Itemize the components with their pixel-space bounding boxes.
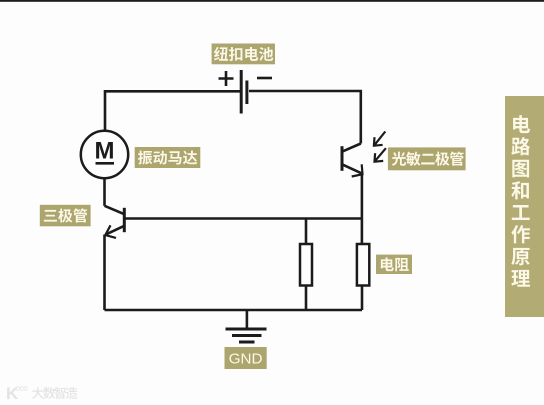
wire motor to Q1 collector <box>103 178 106 206</box>
svg-text:GND: GND <box>229 351 263 368</box>
resistor R2 body <box>357 244 369 286</box>
resistor R1 lead top <box>305 219 308 245</box>
label: button battery 纽扣电池 <box>212 44 275 65</box>
phototransistor base bar <box>341 146 344 171</box>
battery B1 negative plate <box>245 81 248 105</box>
resistor R2 lead bottom <box>361 286 364 311</box>
phototransistor emitter wire down <box>361 174 364 245</box>
transistor Q1 collector diagonal <box>105 206 125 214</box>
light arrow 1 <box>374 132 385 146</box>
label: GND <box>225 347 267 369</box>
label: transistor 三极管 <box>40 205 91 227</box>
label: photodiode 光敏二极管 <box>388 147 466 170</box>
battery plus sign <box>219 71 234 86</box>
wire top-left (battery + to motor) <box>105 91 240 131</box>
battery B1 (button cell) positive plate <box>240 70 243 114</box>
transistor Q1 emitter with arrow <box>106 226 124 235</box>
ground bar 2 <box>232 334 262 337</box>
resistor R1 body <box>300 244 312 286</box>
transistor Q1 base bar <box>123 208 126 232</box>
top border line <box>0 0 544 2</box>
transistor Q1 emitter wire down <box>103 235 106 311</box>
battery minus sign <box>257 77 272 80</box>
motor underline <box>96 162 115 165</box>
wire bottom rail <box>105 309 363 312</box>
ground stub <box>246 310 249 329</box>
phototransistor emitter with arrow <box>342 164 362 173</box>
motor M1 (vibration motor) circle <box>81 131 128 178</box>
svg-text:000: 000 <box>16 386 28 393</box>
wire top-right (battery - to phototransistor collector) <box>249 91 361 144</box>
label: resistor 电阻 <box>376 255 412 274</box>
light arrow 2 <box>375 148 386 162</box>
sidebar: circuit diagram and working principle 电路图和工作原理 <box>505 96 544 317</box>
resistor R1 lead bottom <box>305 286 308 311</box>
label: vibration motor 振动马达 <box>135 147 201 168</box>
wire Q1 base to photodiode node <box>124 217 362 220</box>
phototransistor (光敏二极管) collector diagonal <box>342 144 361 152</box>
ground bar 3 <box>239 341 255 344</box>
ground bar 1 <box>226 328 267 331</box>
svg-text:M: M <box>95 138 115 165</box>
